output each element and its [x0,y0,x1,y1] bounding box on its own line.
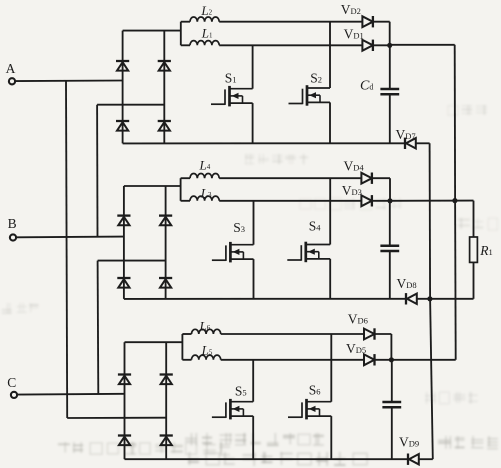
svg-text:C: C [7,375,16,390]
svg-text:B: B [8,216,17,231]
svg-text:A: A [6,61,16,76]
